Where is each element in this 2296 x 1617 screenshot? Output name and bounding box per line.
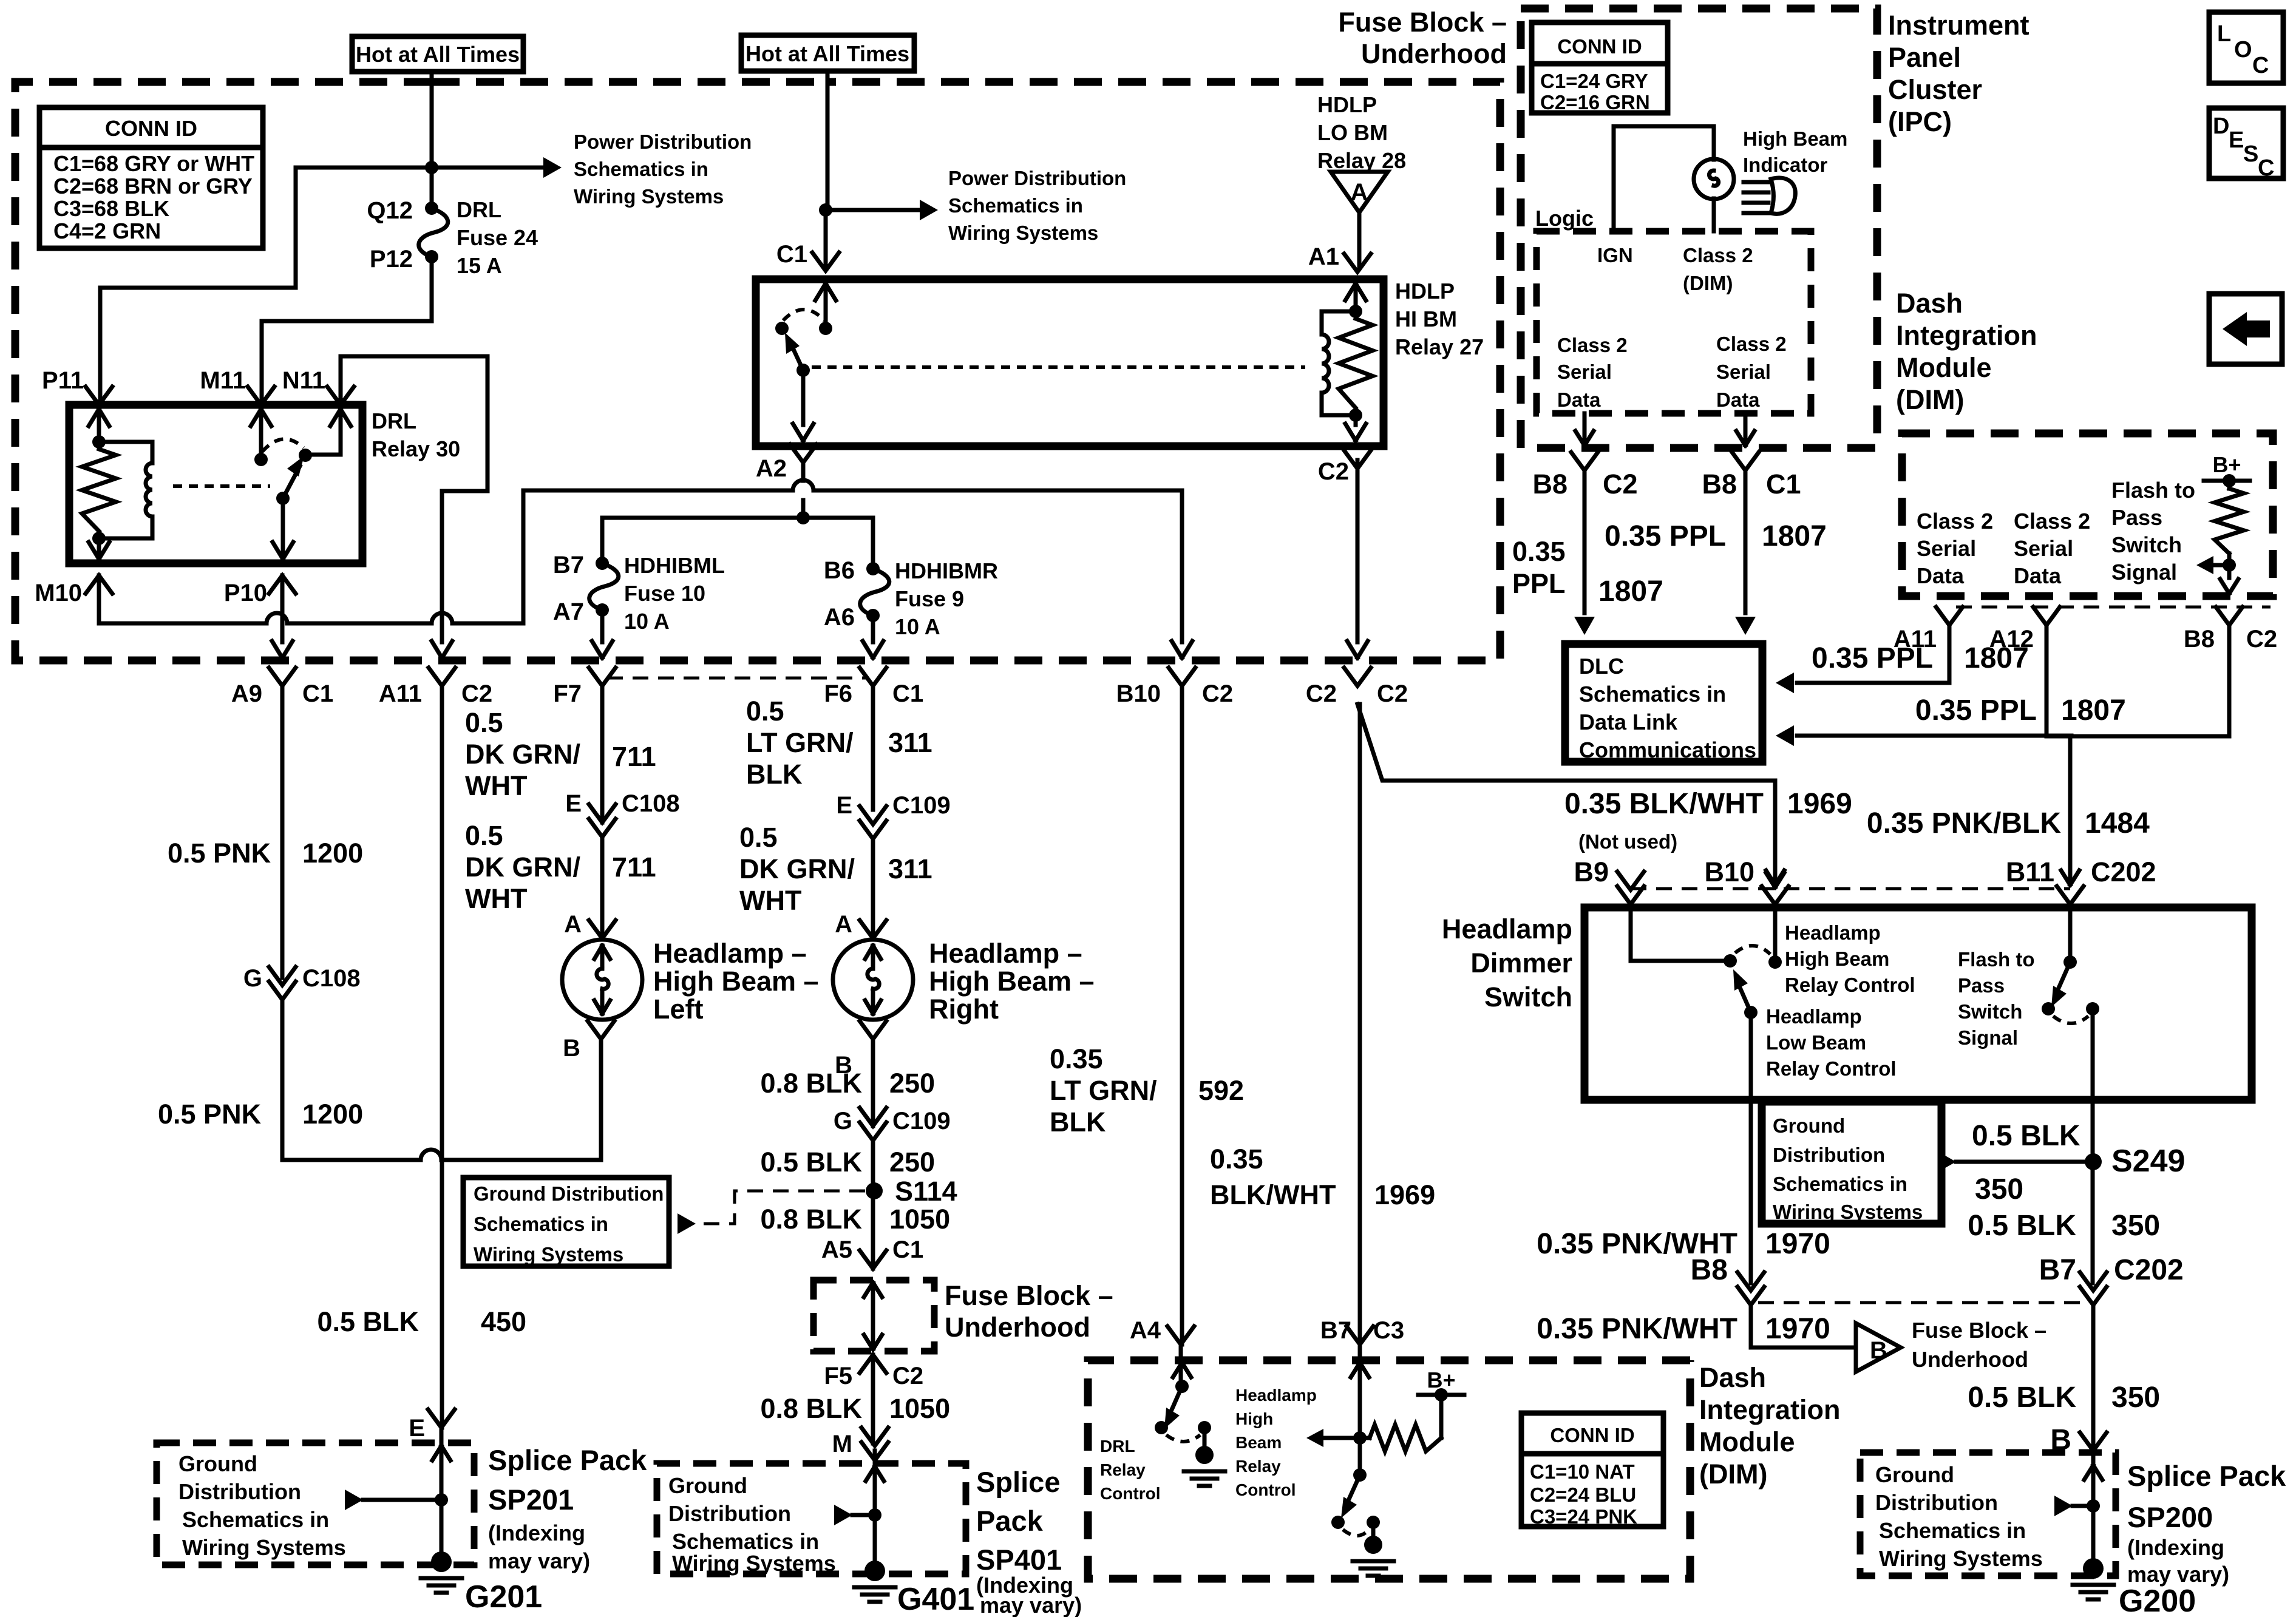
svg-text:Splice Pack: Splice Pack [2127,1460,2286,1492]
svg-text:0.5 BLK: 0.5 BLK [1968,1210,2076,1242]
svg-text:Dimmer: Dimmer [1470,947,1572,978]
splice pack SP201 dashed box [157,1443,474,1565]
svg-text:Ground: Ground [1773,1114,1845,1137]
svg-text:C2=24 BLU: C2=24 BLU [1530,1483,1636,1506]
svg-text:C3=68 BLK: C3=68 BLK [53,196,169,221]
relay27 pin C1 arrow [815,283,836,300]
svg-text:Relay 28: Relay 28 [1317,148,1406,173]
wire from Hot2 down to C1 [826,71,827,267]
svg-text:HDLP: HDLP [1317,92,1377,117]
relay27 switch contacts [775,322,789,335]
svg-text:Cluster: Cluster [1888,74,1982,105]
svg-text:Pass: Pass [1958,974,2005,997]
connector F5 C2 [860,1355,886,1373]
svg-text:C2: C2 [1318,458,1349,485]
wire B8C2 to DLC [1583,470,1587,613]
relay27 resistor [1339,319,1373,408]
svg-text:WHT: WHT [739,885,801,916]
svg-text:DRL: DRL [1100,1437,1135,1456]
svg-text:Right: Right [929,994,999,1025]
svg-text:SP200: SP200 [2127,1501,2213,1533]
connector M11 [248,387,274,405]
ground high beam switch [1371,1522,1376,1536]
DIM dashed box 1 [1902,433,2273,596]
connector A2 [790,444,817,463]
svg-text:0.35 PNK/WHT: 0.35 PNK/WHT [1537,1313,1737,1345]
svg-text:350: 350 [2111,1381,2160,1414]
wire A9 PNK column [282,686,601,1160]
junction SP401 [868,1508,881,1522]
wire relay27 C2 down to dashed border [1356,460,1360,642]
DLC box [1565,644,1762,762]
connector B8 1970 [1737,1272,1764,1290]
svg-text:F6: F6 [824,680,852,707]
svg-text:711: 711 [612,741,656,772]
svg-text:350: 350 [2111,1210,2160,1242]
svg-text:DK GRN/: DK GRN/ [739,853,855,884]
svg-text:1807: 1807 [2061,694,2126,727]
connector C2 C2 mid [1344,668,1371,686]
svg-text:15 A: 15 A [457,253,502,278]
svg-text:Q12: Q12 [367,197,413,224]
svg-text:G: G [834,1108,852,1134]
wire S249 from ground distribution [1956,1160,2085,1164]
svg-text:M: M [832,1431,852,1457]
svg-text:0.5: 0.5 [739,822,778,853]
svg-text:C2: C2 [1377,680,1408,707]
connector F6 C1 [860,668,886,686]
wire triangle A to A1 [1357,212,1362,268]
svg-text:Headlamp: Headlamp [1785,921,1881,944]
svg-text:B9: B9 [1574,856,1609,887]
dashed leader S114 [698,1191,865,1224]
arrow to ground distribution box [678,1213,696,1234]
svg-text:G401: G401 [897,1582,974,1617]
svg-text:711: 711 [612,852,656,883]
CONN ID box 1 [39,107,263,248]
svg-text:Headlamp: Headlamp [1235,1386,1317,1405]
wire B8C1 to DLC [1744,470,1748,613]
connector C1 relay27 [812,253,839,271]
svg-text:C: C [2252,53,2269,78]
svg-text:M10: M10 [35,580,82,606]
svg-text:DRL: DRL [372,408,416,433]
Logic dashed box [1537,231,1811,413]
svg-text:HDHIBML: HDHIBML [624,553,725,578]
svg-text:P10: P10 [224,580,267,606]
svg-text:A: A [1351,179,1368,206]
svg-text:Splice: Splice [976,1466,1060,1498]
svg-text:450: 450 [481,1306,526,1337]
connector B SP200 [2080,1432,2107,1451]
fuse block underhood small dashed box [813,1280,934,1351]
connector A9 C1 [269,668,296,686]
svg-text:Distribution: Distribution [668,1501,791,1526]
svg-text:C3=24 PNK: C3=24 PNK [1530,1505,1637,1528]
wire from Hot1 down [430,72,434,208]
svg-text:B: B [1870,1337,1887,1364]
svg-text:Communications: Communications [1579,737,1756,762]
fuse DRL Fuse 24 15 A [425,202,438,215]
wire logic B8 C1 out [1744,413,1748,444]
svg-text:Wiring Systems: Wiring Systems [672,1551,836,1576]
svg-text:B8: B8 [2184,626,2215,653]
high beam relay control switch [1358,1438,1362,1475]
svg-text:Logic: Logic [1535,206,1594,231]
svg-text:A12: A12 [1989,626,2034,653]
svg-text:E: E [2229,127,2244,153]
svg-text:C202: C202 [2114,1254,2184,1286]
svg-text:CONN ID: CONN ID [1557,35,1642,58]
svg-text:Distribution: Distribution [1773,1144,1885,1166]
wire branch to P11 [100,168,432,401]
svg-text:1050: 1050 [889,1393,950,1424]
connector B10 dimmer [1766,873,1784,887]
svg-text:Class 2: Class 2 [1683,244,1753,266]
svg-text:C2: C2 [892,1363,923,1389]
svg-text:Pass: Pass [2111,505,2162,530]
svg-text:Distribution: Distribution [1875,1490,1998,1515]
svg-text:C202: C202 [2091,856,2156,887]
svg-text:0.35: 0.35 [1210,1144,1263,1175]
flash to pass signal node [2223,558,2236,572]
relay27 pin A2 wire [801,370,806,425]
junction node [425,161,438,174]
wire flash contact down to S249 [2091,1009,2095,1283]
wire E into SP201 [440,1428,444,1559]
thin dashed connector line B9-B11 [1631,887,2070,890]
svg-text:Serial: Serial [1716,361,1771,383]
wire F5 to M [871,1355,875,1443]
svg-text:A4: A4 [1130,1317,1161,1344]
relay 30 dashed link [173,484,270,488]
wire A4 into DIM [1179,1344,1183,1379]
svg-text:Schematics in: Schematics in [474,1213,608,1235]
svg-text:Instrument: Instrument [1888,10,2029,41]
svg-text:(Indexing: (Indexing [2127,1535,2224,1560]
svg-text:C1: C1 [302,680,333,707]
Hot at All Times box 2 [741,35,914,71]
svg-text:1969: 1969 [1787,788,1852,820]
connector P11 [86,387,112,405]
svg-text:C108: C108 [302,965,361,992]
svg-text:A9: A9 [231,680,262,707]
svg-text:Integration: Integration [1699,1394,1841,1425]
svg-text:C2=68 BRN or GRY: C2=68 BRN or GRY [53,174,253,198]
svg-text:Fuse Block –: Fuse Block – [1338,7,1507,38]
svg-text:P11: P11 [42,367,84,394]
svg-text:0.35 PNK/WHT: 0.35 PNK/WHT [1537,1228,1737,1260]
svg-text:A5: A5 [821,1236,852,1263]
svg-text:592: 592 [1198,1075,1244,1106]
svg-text:Data: Data [1557,388,1601,411]
junction node 2 [819,203,832,217]
svg-text:Splice Pack: Splice Pack [488,1444,647,1476]
connector G C109 [860,1108,886,1126]
svg-text:B7: B7 [2039,1254,2076,1286]
splice S249 [2085,1153,2102,1170]
svg-text:Schematics in: Schematics in [574,158,708,180]
svg-text:D: D [2213,114,2229,139]
flash to pass switch in dimmer [2068,904,2073,962]
wire M10 to B10 (DRL relay control) [99,480,1182,642]
svg-text:1484: 1484 [2085,807,2150,839]
svg-text:Power Distribution: Power Distribution [574,131,752,153]
svg-text:Relay Control: Relay Control [1785,974,1915,996]
svg-text:C109: C109 [892,792,951,819]
svg-text:250: 250 [889,1147,935,1178]
svg-text:Module: Module [1699,1426,1795,1457]
connector A11 DIM [1936,607,1963,625]
relay 30 coil [99,442,152,538]
flash to pass resistor [2227,481,2232,565]
svg-text:Wiring Systems: Wiring Systems [1879,1546,2043,1571]
svg-text:Flash to: Flash to [2111,478,2195,503]
svg-text:0.5 BLK: 0.5 BLK [1968,1381,2076,1414]
svg-text:1200: 1200 [302,1099,363,1130]
svg-text:B8: B8 [1532,469,1567,500]
svg-text:HI BM: HI BM [1395,307,1457,331]
svg-text:CONN ID: CONN ID [105,116,197,141]
svg-text:Fuse 24: Fuse 24 [457,225,538,250]
svg-text:S114: S114 [895,1176,957,1207]
svg-text:Headlamp –: Headlamp – [929,938,1082,969]
svg-text:Data: Data [1917,563,1965,588]
svg-text:Class 2: Class 2 [1716,333,1787,355]
DIM dashed box 2 [1088,1360,1690,1579]
connector G C108 [269,967,296,985]
high beam icon [1744,182,1768,213]
svg-text:Class 2: Class 2 [1917,509,1993,534]
arrow SP200 [2054,1496,2073,1516]
wire F7 column [600,686,605,938]
svg-text:B7: B7 [553,552,584,578]
wire lamp bracket [1614,126,1714,231]
thin dashed connector line F7-F6 [607,677,868,680]
svg-text:B: B [563,1035,580,1062]
wire flash signal out [2227,565,2232,578]
CONN ID box 2 [1532,22,1668,113]
svg-text:C2: C2 [1202,680,1233,707]
svg-text:O: O [2234,37,2252,63]
wire C2 column down to B7 C3 [1357,704,1775,1344]
svg-text:WHT: WHT [465,883,527,914]
svg-text:BLK: BLK [746,759,803,790]
svg-text:Left: Left [653,994,704,1025]
wire arrow to power distribution 2 [826,208,923,212]
svg-text:(DIM): (DIM) [1699,1459,1767,1490]
connector A headlamp left [589,920,616,938]
svg-text:0.5: 0.5 [465,820,503,851]
splice S114 [866,1182,883,1199]
wire B7C3 into DIM [1358,1344,1362,1438]
svg-text:Relay 27: Relay 27 [1395,334,1484,359]
connector E C109 [860,806,886,824]
svg-text:Data: Data [2014,563,2062,588]
svg-text:Hot at All Times: Hot at All Times [746,41,909,66]
junction DIM2 [1353,1431,1367,1445]
wire A11 BLK ground column [440,686,444,1428]
svg-text:Schematics in: Schematics in [948,194,1083,217]
connector B11 C202 [2057,886,2084,904]
connector B8 C2 IPC [1571,452,1598,470]
wire P12 to M11 [262,257,432,401]
connector P10 [269,575,296,594]
svg-text:N11: N11 [282,367,325,394]
svg-text:(DIM): (DIM) [1896,384,1964,415]
svg-text:1970: 1970 [1765,1313,1830,1345]
svg-text:0.35 PPL: 0.35 PPL [1605,520,1726,552]
connector B headlamp right [860,1021,886,1039]
wire B8 1970 to triangle B [1751,1305,1855,1347]
svg-text:Ground Distribution: Ground Distribution [474,1182,664,1205]
svg-text:Headlamp: Headlamp [1442,914,1572,944]
svg-text:Beam: Beam [1235,1433,1282,1452]
svg-text:1050: 1050 [889,1204,950,1235]
dimmer high beam contact wiring [1631,904,1775,962]
svg-text:1200: 1200 [302,838,363,869]
connector B9 [1617,872,1644,890]
svg-text:Control: Control [1100,1484,1161,1503]
svg-text:C3: C3 [1373,1317,1404,1344]
triangle B fuse block [1856,1323,1901,1372]
svg-text:B10: B10 [1704,856,1754,887]
svg-text:HDLP: HDLP [1395,279,1455,303]
ground G401 [864,1561,885,1581]
svg-text:A6: A6 [824,604,855,631]
connector A4 [1167,1326,1194,1344]
svg-text:Relay: Relay [1235,1457,1281,1476]
svg-text:LT GRN/: LT GRN/ [746,727,854,758]
svg-text:(Not used): (Not used) [1578,830,1677,853]
connector M10 [86,575,112,594]
Hot at All Times box 1 [352,36,523,72]
svg-text:Indicator: Indicator [1743,154,1828,176]
relay27 switch arm [791,344,803,370]
svg-text:Switch: Switch [1958,1000,2022,1023]
svg-text:C: C [2258,155,2274,181]
svg-text:A: A [564,911,582,938]
svg-text:Flash to: Flash to [1958,948,2035,971]
svg-text:Signal: Signal [2111,560,2177,585]
svg-text:C1=10 NAT: C1=10 NAT [1530,1460,1635,1483]
svg-text:B6: B6 [824,557,855,584]
connector A1 [1344,254,1371,272]
arrow SP401 [834,1505,852,1525]
wire A12 to DLC arrow [1797,625,2071,736]
resistor DIM2 [1370,1425,1441,1451]
wire low beam control down [1749,1012,1753,1283]
dimmer switch arm [1744,1006,1758,1019]
wire A11 E connector [428,1409,455,1428]
svg-text:Schematics in: Schematics in [1879,1518,2026,1543]
svg-text:DRL: DRL [457,197,501,222]
junction A2 fuses [796,511,810,524]
svg-text:Signal: Signal [1958,1026,2018,1049]
wire B8 DIM to B11 [2046,625,2229,884]
svg-text:0.35 PNK/BLK: 0.35 PNK/BLK [1867,807,2061,839]
svg-text:High: High [1235,1409,1273,1428]
svg-text:Wiring Systems: Wiring Systems [474,1243,623,1266]
svg-text:Data: Data [1716,388,1760,411]
relay27 pin A1 arrow [1345,283,1366,300]
svg-text:0.8 BLK: 0.8 BLK [760,1393,862,1424]
svg-text:C2: C2 [1603,469,1638,500]
pin M10 arrow [97,538,101,559]
svg-text:may vary): may vary) [488,1548,590,1573]
svg-text:(Indexing: (Indexing [488,1520,585,1545]
wire A6 down [871,615,875,642]
connector A headlamp right [860,920,886,938]
svg-text:A: A [835,911,852,938]
svg-text:A1: A1 [1308,243,1339,270]
svg-text:E: E [836,792,852,819]
connector A5 C1 [860,1250,886,1269]
svg-text:0.35 BLK/WHT: 0.35 BLK/WHT [1564,788,1764,820]
DESC box [2209,108,2283,178]
svg-text:BLK/WHT: BLK/WHT [1210,1179,1336,1210]
svg-text:0.35: 0.35 [1512,536,1566,567]
connector C2 top [1344,450,1371,469]
ground G200 [2083,1558,2104,1579]
headlamp high beam right [833,940,913,1020]
svg-text:C2: C2 [1306,680,1337,707]
svg-text:M11: M11 [200,367,246,394]
high beam indicator lamp [1694,159,1734,199]
svg-text:C2: C2 [461,680,492,707]
svg-text:may vary): may vary) [2127,1562,2229,1587]
svg-text:Wiring Systems: Wiring Systems [948,222,1098,244]
svg-text:1969: 1969 [1374,1179,1435,1210]
svg-text:S: S [2243,141,2258,167]
thin dashed connector line B8-B7 [1758,1301,2086,1304]
pin N11 arrow [330,409,351,426]
svg-text:Control: Control [1235,1480,1296,1499]
svg-text:Schematics in: Schematics in [182,1507,329,1532]
svg-text:Module: Module [1896,352,1991,383]
svg-text:Fuse 10: Fuse 10 [624,581,705,606]
svg-text:LO BM: LO BM [1317,120,1388,145]
svg-text:Class 2: Class 2 [1557,334,1628,356]
svg-text:Fuse Block –: Fuse Block – [1912,1318,2046,1343]
svg-text:BLK: BLK [1050,1107,1106,1137]
svg-text:Schematics in: Schematics in [1773,1173,1907,1195]
LOC box [2209,12,2283,83]
svg-text:250: 250 [889,1068,935,1099]
svg-text:C108: C108 [622,790,680,817]
wire N11 to A11 ground [341,356,487,642]
svg-text:IGN: IGN [1597,244,1633,266]
DRL relay control switch [1175,1380,1189,1393]
connector B7 C3 [1347,1326,1373,1344]
svg-text:G: G [243,965,262,992]
DRL Relay 30 box [69,405,362,563]
junction SP200 [2087,1499,2100,1513]
svg-text:C2=16 GRN: C2=16 GRN [1540,91,1650,114]
svg-text:P12: P12 [370,246,413,273]
svg-text:PPL: PPL [1512,568,1566,599]
wire logic B8 C2 out [1583,413,1587,444]
relay 30 switch arm [283,466,300,498]
wire B right headlamp down [871,1039,875,1269]
svg-text:L: L [2217,21,2231,47]
svg-text:Data Link: Data Link [1579,710,1678,734]
svg-text:E: E [409,1415,425,1442]
wire B7 C202 down to B [2091,1305,2096,1451]
IPC dashed box [1521,8,1877,448]
svg-text:Serial: Serial [2014,536,2073,561]
connector B8 C2 DIM [2216,607,2243,625]
